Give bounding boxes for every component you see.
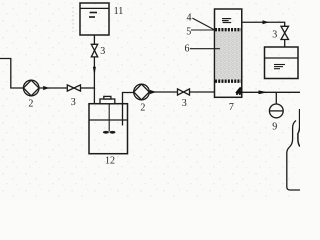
svg-text:7: 7 (229, 102, 234, 113)
svg-text:2: 2 (140, 103, 145, 114)
svg-text:3: 3 (272, 30, 277, 41)
svg-text:11: 11 (114, 6, 124, 17)
svg-text:9: 9 (272, 122, 277, 133)
svg-text:3: 3 (100, 46, 105, 57)
svg-text:4: 4 (187, 13, 192, 24)
svg-text:2: 2 (28, 99, 33, 110)
svg-text:3: 3 (71, 97, 76, 108)
svg-text:5: 5 (186, 27, 191, 38)
svg-text:6: 6 (185, 44, 190, 55)
svg-text:3: 3 (182, 98, 187, 109)
svg-text:12: 12 (105, 156, 115, 167)
